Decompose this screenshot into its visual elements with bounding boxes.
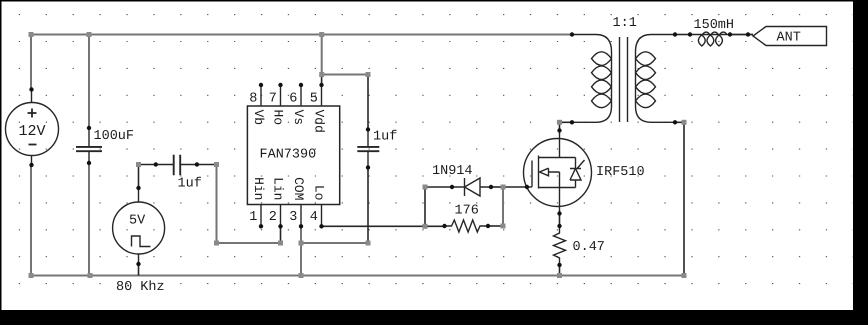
wire resistor 176 right lead wire <box>488 225 503 227</box>
wire Vdd cap bottom to COM net <box>367 168 369 244</box>
svg-text:1: 1 <box>249 210 257 225</box>
wire 100uF top branch <box>88 35 90 129</box>
svg-text:Hin: Hin <box>251 177 266 200</box>
wire cap to corner <box>197 164 217 166</box>
svg-text:2: 2 <box>269 210 277 225</box>
svg-text:ANT: ANT <box>777 31 801 46</box>
svg-text:Vs: Vs <box>291 110 306 126</box>
wire inductor to antenna <box>730 34 753 36</box>
diode D1 1N914 <box>452 186 491 188</box>
wire 12V bottom to rail <box>30 165 32 276</box>
wire gate network right vertical <box>502 187 504 226</box>
wire COM pin3 to ground rail <box>300 226 302 275</box>
wire vertex handles <box>29 32 34 37</box>
wire diode right lead wire <box>491 186 503 188</box>
wire transformer secondary bottom to ground <box>675 122 684 275</box>
wire source to resistor <box>559 214 561 227</box>
wire Vdd corner down to pin 5 <box>321 75 323 86</box>
svg-text:IRF510: IRF510 <box>596 165 645 180</box>
junction pins of U1 top <box>259 83 263 87</box>
svg-text:1N914: 1N914 <box>432 164 473 179</box>
wire COM to bypass cap <box>301 242 368 244</box>
svg-text:COM: COM <box>291 177 306 200</box>
wire Lo pin4 to gate network <box>322 225 445 227</box>
inductor L1 150mH <box>690 32 753 46</box>
junction pins of 100uF <box>87 126 91 130</box>
transformer T1 core <box>620 37 628 122</box>
svg-text:1uf: 1uf <box>373 130 397 145</box>
svg-text:5: 5 <box>310 92 318 107</box>
wire gate network left vertical <box>424 187 426 226</box>
node ANT antenna flag <box>753 27 827 46</box>
junction pins of T1 primary <box>570 32 574 36</box>
svg-text:8: 8 <box>249 92 257 107</box>
svg-text:4: 4 <box>310 210 318 225</box>
svg-text:Lo: Lo <box>312 185 327 201</box>
pin 5 <box>321 85 323 106</box>
svg-text:Vdd: Vdd <box>312 110 327 133</box>
transformer T1 secondary winding <box>636 35 676 123</box>
junction pins of 12V source <box>29 87 33 91</box>
transistor Q1 IRF510 MOSFET <box>524 139 592 207</box>
wire 5V to cap <box>139 165 156 189</box>
junction pin of ANT <box>746 32 750 36</box>
svg-text:1:1: 1:1 <box>613 16 637 31</box>
wire up to pin2 Lin <box>280 226 282 243</box>
svg-text:6: 6 <box>289 92 297 107</box>
svg-text:100uF: 100uF <box>94 129 135 144</box>
wire bottom ground rail <box>31 275 684 277</box>
wire corner down to Lin <box>217 165 281 244</box>
source V2 5V square wave generator <box>138 188 140 264</box>
wire 5V bottom to ground rail <box>138 264 140 276</box>
junction pins of T1 secondary <box>673 32 677 36</box>
op-amp U1 FAN7390 gate driver IC body <box>247 106 339 205</box>
wire transformer secondary top to inductor <box>675 34 690 36</box>
svg-text:Lin: Lin <box>271 177 286 200</box>
junction pins of C2 1uf <box>154 162 158 166</box>
wire top rail <box>31 34 572 36</box>
wire to MOSFET gate <box>503 186 527 188</box>
wire Vdd cap top <box>367 75 369 130</box>
svg-text:1uf: 1uf <box>178 177 202 192</box>
pin 6 <box>300 85 302 106</box>
wire 100uF bottom branch <box>88 163 90 276</box>
svg-text:80 Khz: 80 Khz <box>116 280 165 295</box>
junction pins of Q1 drain/source <box>557 128 561 132</box>
pin 1 <box>260 205 262 227</box>
svg-text:Ho: Ho <box>271 110 286 126</box>
junction pins of D1 <box>450 185 454 189</box>
svg-text:FAN7390: FAN7390 <box>260 148 317 163</box>
svg-text:150mH: 150mH <box>694 18 735 33</box>
capacitor C2 1uf (5V coupling) <box>156 164 197 166</box>
pin 4 <box>321 205 323 227</box>
junction pin of Q1 gate <box>525 185 529 189</box>
resistor R2 0.47 <box>554 226 566 265</box>
wire 12V top to rail <box>30 35 32 90</box>
wire drain to transformer <box>560 122 573 130</box>
junction pins of U1 bottom <box>259 224 263 228</box>
transformer T1 primary winding <box>572 35 612 123</box>
svg-text:0.47: 0.47 <box>573 240 605 255</box>
svg-text:176: 176 <box>455 204 479 219</box>
wire diode left lead wire <box>425 186 452 188</box>
source V1 12V battery <box>31 90 33 166</box>
svg-text:Vb: Vb <box>251 110 266 126</box>
wire Vdd branch from rail <box>322 35 368 75</box>
svg-text:3: 3 <box>289 210 297 225</box>
pin 7 <box>280 85 282 106</box>
pin 3 <box>300 205 302 227</box>
svg-text:12V: 12V <box>19 123 46 140</box>
junction pins of L1 <box>688 32 692 36</box>
pin 8 <box>260 85 262 106</box>
svg-text:7: 7 <box>269 92 277 107</box>
pin 2 <box>280 205 282 227</box>
junction pins of 5V source <box>136 186 140 190</box>
resistor R1 176 <box>445 220 489 232</box>
junction pins of R2 <box>557 224 561 228</box>
capacitor C3 1uf (Vdd bypass) <box>367 130 369 168</box>
capacitor C1 100uF <box>88 128 90 163</box>
junction pins of C3 1uf <box>366 127 370 131</box>
junction pins of R1 <box>442 224 446 228</box>
svg-text:5V: 5V <box>129 214 146 229</box>
wire resistor 0.47 to ground rail <box>559 265 561 276</box>
